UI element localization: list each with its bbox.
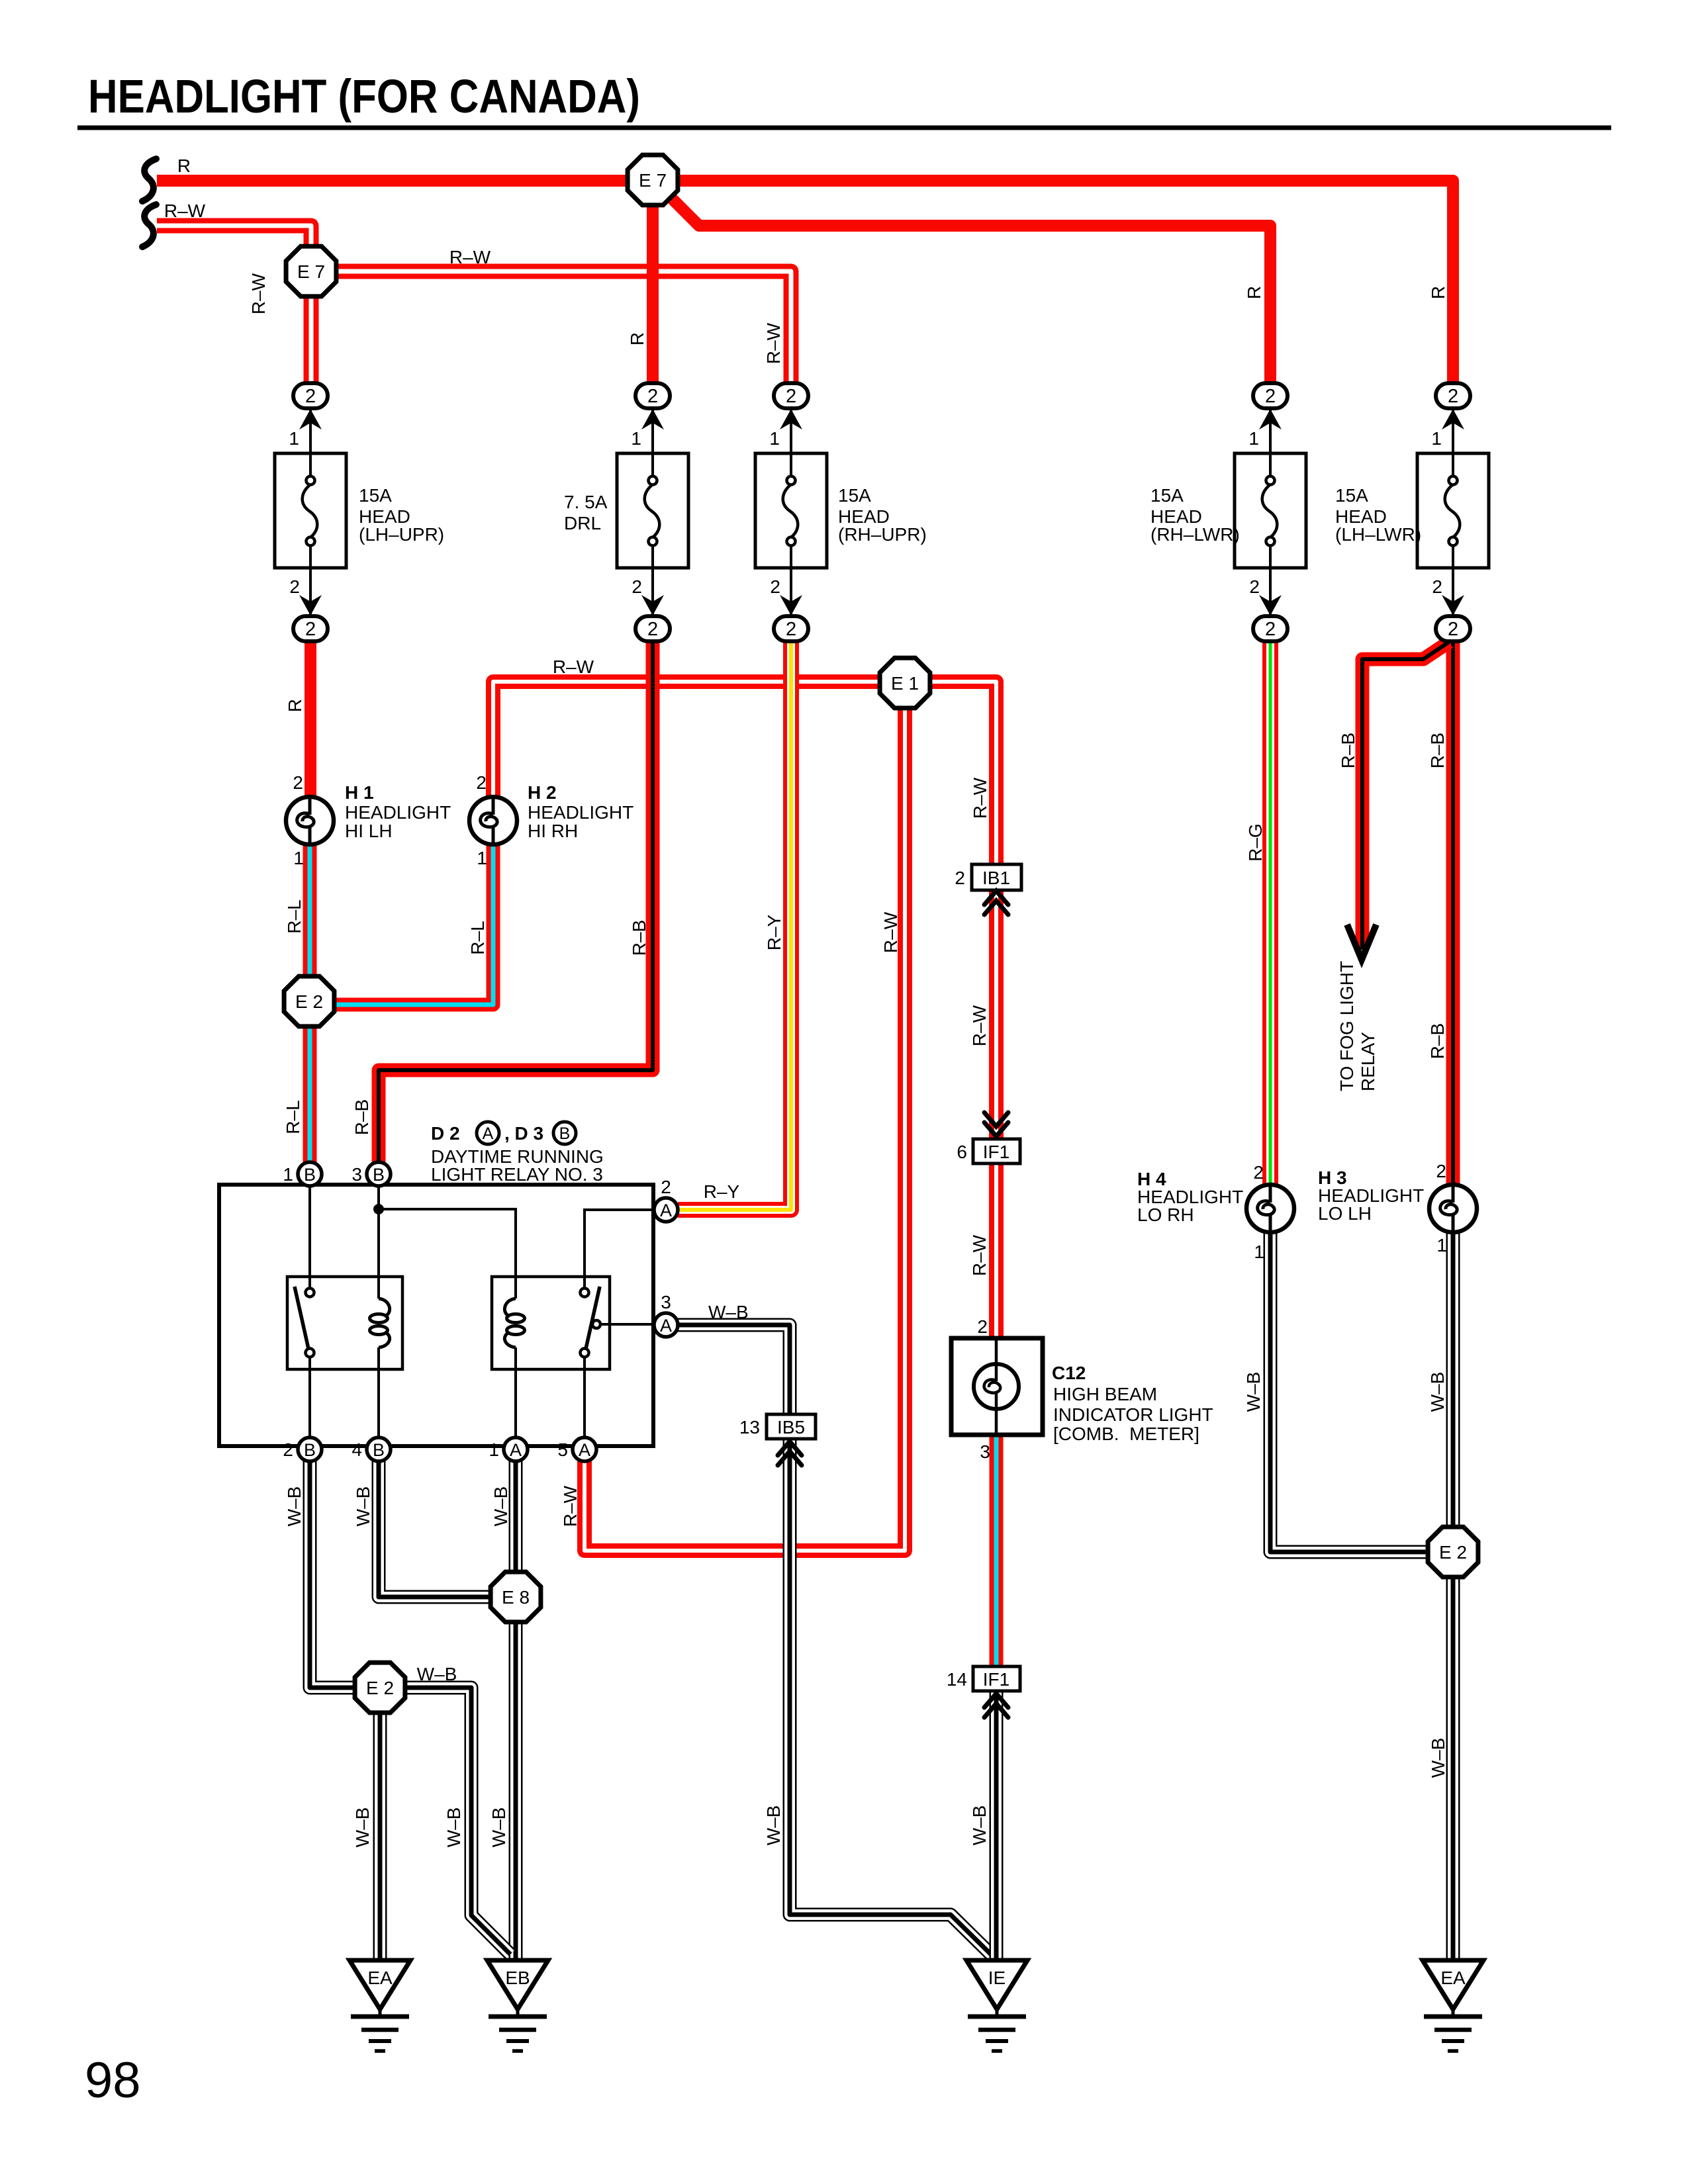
svg-text:A: A bbox=[483, 1124, 494, 1143]
svg-text:HI RH: HI RH bbox=[528, 821, 578, 841]
svg-text:R–G: R–G bbox=[1245, 823, 1266, 862]
fuse column LH-UPR: pin line 1 bbox=[309, 408, 312, 453]
svg-text:2: 2 bbox=[786, 619, 796, 640]
svg-text:2: 2 bbox=[283, 1439, 293, 1460]
svg-text:2: 2 bbox=[661, 1177, 671, 1197]
svg-text:B: B bbox=[559, 1124, 571, 1143]
wire W-B from E2 down to ground EA bbox=[373, 1688, 387, 1960]
svg-text:1: 1 bbox=[1248, 428, 1259, 449]
svg-text:HEADLIGHT: HEADLIGHT bbox=[528, 802, 633, 823]
wire label W-B (E2 to EA, rotated) bbox=[352, 1807, 373, 1848]
svg-text:R–W: R–W bbox=[969, 1234, 990, 1276]
svg-text:(RH–LWR): (RH–LWR) bbox=[1150, 524, 1240, 545]
svg-text:EA: EA bbox=[1440, 1968, 1466, 1988]
svg-text:R–B: R–B bbox=[1427, 733, 1448, 768]
relay pin 1A bbox=[504, 1437, 528, 1461]
wire label W-B (H4 wire, rotated) bbox=[1243, 1372, 1264, 1412]
wire label R-L (H1 to E2, rotated) bbox=[284, 899, 305, 933]
wire W-B from IF1 pin 14 to ground IE bbox=[990, 1690, 1004, 1960]
connector oval 2 below fuse DRL bbox=[635, 616, 670, 641]
connector oval 2 above fuse LH-LWR bbox=[1436, 383, 1470, 408]
wire W-B from relay pin 2B to E2 ground junction bbox=[310, 1461, 380, 1688]
svg-text:15A: 15A bbox=[1150, 485, 1184, 506]
wire label R-W (pin 5A, rotated) bbox=[560, 1485, 581, 1527]
svg-text:1: 1 bbox=[631, 428, 641, 449]
connector oval 2 below fuse LH-LWR bbox=[1436, 616, 1470, 641]
svg-text:A: A bbox=[660, 1201, 672, 1220]
connector arrow down (DRL pin 2) bbox=[641, 595, 664, 615]
connector IB1 pin 2 bbox=[955, 864, 1021, 890]
brace wire-continuation squiggle at R-W feed bbox=[142, 205, 156, 247]
svg-text:2: 2 bbox=[1253, 1162, 1264, 1183]
svg-text:2: 2 bbox=[647, 386, 658, 407]
svg-text:INDICATOR LIGHT: INDICATOR LIGHT bbox=[1053, 1404, 1213, 1425]
fuse column LH-LWR: pin line 1 bbox=[1452, 408, 1454, 453]
svg-text:1: 1 bbox=[283, 1164, 293, 1185]
svg-text:R: R bbox=[285, 699, 305, 712]
svg-text:R–W: R–W bbox=[560, 1485, 581, 1527]
label TO FOG LIGHT RELAY (rotated) bbox=[1336, 961, 1378, 1091]
connector arrow down (RH-LWR pin 2) bbox=[1259, 595, 1282, 615]
svg-text:14: 14 bbox=[947, 1669, 967, 1690]
svg-text:TO FOG LIGHT: TO FOG LIGHT bbox=[1336, 961, 1357, 1091]
svg-text:B: B bbox=[304, 1165, 316, 1185]
svg-text:H 1: H 1 bbox=[345, 782, 374, 803]
svg-text:2: 2 bbox=[770, 576, 780, 597]
svg-text:15A: 15A bbox=[838, 485, 871, 506]
connector oval 2 above fuse RH-UPR bbox=[774, 383, 808, 408]
wire W-B from relay pin 3A through IB5 to ground IE bbox=[678, 1325, 992, 1956]
connector arrow down (RH-UPR pin 2) bbox=[780, 595, 802, 615]
connector E2 (lower-left ground junction) bbox=[355, 1662, 405, 1713]
C12 high beam indicator light box bbox=[951, 1338, 1043, 1435]
wire W-B from relay pin 1A through E8 to ground EB bbox=[509, 1461, 523, 1960]
wire label R-L (H2 wire, rotated) bbox=[467, 921, 488, 954]
svg-text:3: 3 bbox=[661, 1292, 671, 1312]
svg-text:W–B: W–B bbox=[444, 1807, 464, 1848]
wire label W-B (E2 to EB, rotated) bbox=[444, 1807, 464, 1848]
svg-text:6: 6 bbox=[957, 1142, 967, 1162]
svg-text:IB1: IB1 bbox=[982, 868, 1010, 888]
svg-text:R–Y: R–Y bbox=[704, 1181, 740, 1202]
svg-text:1: 1 bbox=[477, 848, 487, 868]
svg-text:1: 1 bbox=[1431, 428, 1442, 449]
wire label W-B (pin 2B, rotated) bbox=[284, 1486, 305, 1527]
wire R from fuse LH-UPR to H1 headlight bbox=[305, 639, 316, 797]
wire label W-B (IB5 to IE, rotated) bbox=[763, 1805, 784, 1846]
svg-text:13: 13 bbox=[739, 1417, 760, 1437]
svg-text:1: 1 bbox=[489, 1439, 499, 1460]
fuse column DRL: pin line 1 bbox=[651, 408, 654, 453]
fuse 15A HEAD (RH-LWR) bbox=[1235, 453, 1306, 568]
svg-text:W–B: W–B bbox=[1428, 1738, 1448, 1778]
connector E7 (left junction) bbox=[286, 246, 336, 296]
svg-text:R–B: R–B bbox=[1427, 1023, 1448, 1059]
relay internal wire from pin 3B through junction to coil bbox=[377, 1186, 380, 1298]
fuse column DRL: pin line 2 bbox=[651, 568, 654, 616]
wire R-W feed from brace into connector E7 bbox=[157, 226, 311, 271]
svg-text:B: B bbox=[304, 1440, 316, 1460]
wire label R-B (to H3 lower, rotated) bbox=[1427, 1023, 1448, 1059]
svg-text:R: R bbox=[1244, 286, 1264, 299]
wire label R-W (IF1 to C12 upper, rotated) bbox=[969, 1005, 990, 1046]
svg-text:EB: EB bbox=[505, 1968, 530, 1988]
svg-text:R–W: R–W bbox=[553, 657, 594, 677]
wire R-G from RH-LWR fuse to H4 headlight bbox=[1262, 639, 1278, 1185]
svg-text:RELAY: RELAY bbox=[1358, 1032, 1378, 1091]
connector arrow up (LH-LWR pin 1) bbox=[1442, 409, 1464, 430]
svg-text:2: 2 bbox=[293, 772, 303, 793]
relay D2/D3 daytime running light relay no.3 box bbox=[219, 1185, 653, 1446]
brace wire-continuation squiggle at R feed bbox=[142, 159, 156, 201]
chevron pair below IF1 pin 14 bbox=[984, 1694, 1008, 1707]
fuse column RH-UPR: pin line 2 bbox=[790, 568, 792, 616]
svg-text:HIGH BEAM: HIGH BEAM bbox=[1053, 1384, 1157, 1404]
relay internal wire from right switch tap to pin 3A bbox=[600, 1323, 654, 1326]
svg-text:E 8: E 8 bbox=[502, 1587, 530, 1608]
connector oval 2 above fuse RH-LWR bbox=[1253, 383, 1288, 408]
svg-text:A: A bbox=[660, 1316, 672, 1336]
svg-text:W–B: W–B bbox=[708, 1302, 749, 1322]
fuse 7.5A DRL bbox=[617, 453, 688, 568]
connector IB5 pin 13 bbox=[739, 1414, 816, 1439]
connector E7 (top junction) bbox=[628, 155, 678, 205]
ground EA (left) bbox=[350, 1960, 410, 2051]
svg-text:7. 5A: 7. 5A bbox=[564, 492, 608, 512]
svg-text:R–W: R–W bbox=[969, 1005, 990, 1046]
wire label W-B (pin 4B, rotated) bbox=[353, 1486, 373, 1527]
relay pin 4B bbox=[367, 1437, 391, 1461]
svg-text:A: A bbox=[510, 1440, 522, 1460]
svg-text:DRL: DRL bbox=[564, 513, 601, 533]
relay right switch blade bbox=[586, 1287, 600, 1349]
svg-text:B: B bbox=[373, 1165, 385, 1185]
relay internal wire from pin 1B to switch bbox=[308, 1186, 311, 1289]
connector arrow up (RH-UPR pin 1) bbox=[780, 409, 802, 430]
wire R-W from E1 down and left to relay pin 5A bbox=[585, 683, 905, 1551]
wire R branch from E7 to RH-LWR fuse bbox=[657, 183, 1270, 384]
svg-text:, D 3: , D 3 bbox=[504, 1123, 543, 1144]
fuse 15A HEAD (LH-UPR) bbox=[275, 453, 346, 568]
wire R main feed (top horizontal, to LH-LWR fuse) bbox=[157, 181, 1453, 384]
wire label W-B (IF1 14 to IE, rotated) bbox=[969, 1805, 990, 1846]
svg-text:(RH–UPR): (RH–UPR) bbox=[838, 524, 927, 545]
svg-text:R: R bbox=[177, 156, 191, 176]
svg-text:IB5: IB5 bbox=[777, 1417, 805, 1437]
svg-text:R–B: R–B bbox=[352, 1099, 372, 1135]
svg-text:A: A bbox=[579, 1440, 590, 1460]
svg-text:W–B: W–B bbox=[353, 1486, 373, 1527]
chevron pair above IF1 pin 6 bbox=[984, 1113, 1008, 1126]
svg-text:1: 1 bbox=[769, 428, 780, 449]
svg-text:W–B: W–B bbox=[491, 1486, 511, 1527]
svg-text:2: 2 bbox=[1249, 576, 1260, 597]
fuse column LH-UPR: pin line 2 bbox=[309, 568, 312, 616]
fuse column RH-LWR: pin line 1 bbox=[1269, 408, 1272, 453]
svg-text:[COMB. METER]: [COMB. METER] bbox=[1053, 1424, 1199, 1444]
wire label W-B (E8 to EB, rotated) bbox=[489, 1807, 509, 1848]
wire label R-B (fog branch, rotated) bbox=[1338, 733, 1358, 768]
connector E2 (lower-right ground junction) bbox=[1428, 1527, 1478, 1577]
connector arrow up (DRL pin 1) bbox=[641, 409, 664, 430]
wire R-W from E7 right to HEAD RH-UPR fuse bbox=[311, 271, 791, 384]
svg-text:15A: 15A bbox=[359, 485, 392, 506]
relay internal wire below right coil to pin 1A bbox=[514, 1347, 517, 1437]
relay internal junction node bbox=[373, 1204, 384, 1214]
wire label R (down to LH-LWR fuse, rotated) bbox=[1428, 286, 1448, 299]
svg-text:LO RH: LO RH bbox=[1137, 1205, 1194, 1225]
svg-text:2: 2 bbox=[1265, 386, 1276, 407]
svg-text:2: 2 bbox=[632, 576, 642, 597]
wire label R-B (to relay 3B, rotated) bbox=[352, 1099, 372, 1135]
connector oval 2 below fuse RH-LWR bbox=[1253, 616, 1288, 641]
ground IE bbox=[966, 1960, 1027, 2051]
svg-text:98: 98 bbox=[85, 2052, 141, 2109]
fuse column LH-LWR: pin line 2 bbox=[1452, 568, 1454, 616]
svg-text:E 7: E 7 bbox=[297, 261, 325, 282]
svg-text:W–B: W–B bbox=[969, 1805, 990, 1846]
connector IF1 pin 6 bbox=[957, 1139, 1020, 1163]
wire label R-W (down to RH-UPR fuse, rotated) bbox=[763, 322, 784, 364]
wire W-B from relay pin 4B to E8 bbox=[379, 1461, 516, 1597]
wire R-Y from RH-UPR fuse to relay pin 2A bbox=[678, 639, 791, 1210]
headlight bulb H4 LO RH bbox=[1246, 1185, 1294, 1232]
fuse 15A HEAD (RH-UPR) bbox=[755, 453, 827, 568]
wire label R-L (E2 to relay 1B, rotated) bbox=[283, 1100, 303, 1134]
svg-text:R–W: R–W bbox=[970, 777, 990, 819]
fuse 15A HEAD (LH-LWR) bbox=[1417, 453, 1489, 568]
wire label R-W (E1 to IB1, rotated) bbox=[970, 777, 990, 819]
connector arrow down (LH-UPR pin 2) bbox=[299, 595, 322, 615]
wire R-W from IB1 to IF1 bbox=[989, 890, 1004, 1139]
svg-text:R–W: R–W bbox=[248, 273, 269, 314]
relay pin 1B bbox=[298, 1162, 322, 1186]
svg-text:R: R bbox=[627, 332, 647, 345]
svg-text:C12: C12 bbox=[1052, 1363, 1086, 1383]
wire W-B from E2 right side to ground EB bbox=[380, 1688, 510, 1954]
connector oval 2 below fuse LH-UPR bbox=[293, 616, 328, 641]
wire R-W from IF1 to C12 high beam indicator bbox=[989, 1163, 1004, 1338]
svg-text:3: 3 bbox=[352, 1164, 362, 1185]
arrow to fog light relay bbox=[1347, 925, 1376, 960]
svg-text:15A: 15A bbox=[1335, 485, 1368, 506]
svg-text:R–L: R–L bbox=[284, 899, 305, 933]
fuse column RH-LWR: pin line 2 bbox=[1269, 568, 1272, 616]
connector oval 2 above fuse LH-UPR bbox=[293, 383, 328, 408]
svg-text:(LH–UPR): (LH–UPR) bbox=[359, 524, 444, 545]
wire label R-Y (RH-UPR wire, rotated) bbox=[764, 914, 784, 950]
svg-text:W–B: W–B bbox=[1243, 1372, 1264, 1412]
svg-text:2: 2 bbox=[305, 386, 316, 407]
svg-text:2: 2 bbox=[1265, 619, 1276, 640]
relay right switch tap contact bbox=[592, 1320, 600, 1328]
svg-text:2: 2 bbox=[1432, 576, 1442, 597]
relay pin 2A bbox=[654, 1198, 678, 1222]
svg-text:R: R bbox=[1428, 286, 1448, 299]
ground EA (right) bbox=[1423, 1960, 1483, 2051]
svg-text:R–L: R–L bbox=[467, 921, 488, 954]
wire label R (fuse to H1, rotated) bbox=[285, 699, 305, 712]
relay internal wire below left switch to pin 2B bbox=[308, 1357, 311, 1437]
svg-text:H 2: H 2 bbox=[528, 782, 557, 803]
svg-text:W–B: W–B bbox=[489, 1807, 509, 1848]
svg-text:2: 2 bbox=[476, 772, 487, 793]
relay pin 3A bbox=[654, 1313, 678, 1337]
wire R-B from DRL fuse to relay pin 3B bbox=[379, 639, 653, 1162]
ground EB bbox=[487, 1960, 548, 2051]
svg-text:1: 1 bbox=[1436, 1235, 1447, 1255]
connector IF1 pin 14 bbox=[947, 1666, 1020, 1691]
svg-text:R–Y: R–Y bbox=[764, 914, 784, 950]
wire label W-B (pin 1A, rotated) bbox=[491, 1486, 511, 1527]
svg-text:HEADLIGHT: HEADLIGHT bbox=[345, 802, 451, 823]
svg-text:W–B: W–B bbox=[284, 1486, 305, 1527]
relay left sub-box bbox=[287, 1277, 402, 1369]
connector arrow up (LH-UPR pin 1) bbox=[299, 409, 322, 430]
chevron pair below IB5 bbox=[778, 1441, 802, 1455]
relay internal wire below right switch to pin 5A bbox=[583, 1357, 586, 1437]
svg-text:R–B: R–B bbox=[1338, 733, 1358, 768]
relay pin 5A bbox=[573, 1437, 596, 1461]
chevron pair below IB1 bbox=[984, 891, 1008, 905]
fuse column RH-UPR: pin line 1 bbox=[790, 408, 792, 453]
svg-text:3: 3 bbox=[980, 1441, 990, 1462]
wire label R-B (DRL wire, rotated) bbox=[629, 920, 649, 956]
wire R-L from C12 pin 3 to IF1 pin 14 bbox=[990, 1435, 1004, 1666]
svg-text:2: 2 bbox=[1436, 1161, 1446, 1181]
svg-text:2: 2 bbox=[647, 619, 658, 640]
svg-text:E 2: E 2 bbox=[1439, 1542, 1467, 1563]
connector E2 (upper junction) bbox=[284, 976, 334, 1026]
relay left switch bottom contact bbox=[306, 1349, 314, 1357]
svg-text:E 1: E 1 bbox=[891, 673, 919, 694]
wire R from E7 top junction down to DRL fuse bbox=[647, 180, 659, 384]
wire R-B branch to fog light relay bbox=[1362, 642, 1449, 950]
relay left switch top contact bbox=[306, 1289, 314, 1297]
svg-text:HEADLIGHT (FOR CANADA): HEADLIGHT (FOR CANADA) bbox=[88, 71, 640, 123]
wire W-B from H4 to E2 bbox=[1270, 1232, 1453, 1552]
svg-text:W–B: W–B bbox=[352, 1807, 373, 1848]
svg-text:(LH–LWR): (LH–LWR) bbox=[1335, 524, 1421, 545]
headlight bulb H2 HI RH bbox=[469, 797, 517, 844]
svg-text:LO LH: LO LH bbox=[1318, 1203, 1372, 1224]
relay pin 2B bbox=[298, 1437, 322, 1461]
svg-text:IF1: IF1 bbox=[983, 1669, 1009, 1690]
svg-text:R–L: R–L bbox=[283, 1100, 303, 1134]
svg-text:2: 2 bbox=[305, 619, 316, 640]
connector oval 2 below fuse RH-UPR bbox=[774, 616, 808, 641]
svg-text:W–B: W–B bbox=[763, 1805, 784, 1846]
relay right sub-box bbox=[492, 1277, 610, 1369]
svg-text:2: 2 bbox=[955, 868, 965, 888]
connector E8 (ground junction) bbox=[491, 1572, 541, 1622]
wire label R-B (to H3 upper, rotated) bbox=[1427, 733, 1448, 768]
headlight bulb H3 LO LH bbox=[1429, 1185, 1477, 1232]
svg-text:D 2: D 2 bbox=[431, 1123, 460, 1144]
connector arrow down (LH-LWR pin 2) bbox=[1442, 595, 1464, 615]
svg-text:IE: IE bbox=[988, 1968, 1006, 1988]
svg-text:1: 1 bbox=[289, 428, 299, 449]
svg-text:2: 2 bbox=[786, 386, 796, 407]
svg-text:E 2: E 2 bbox=[295, 991, 323, 1012]
svg-text:R–W: R–W bbox=[880, 911, 901, 953]
relay internal wire from junction to right coil bbox=[379, 1209, 516, 1298]
relay pin 3B bbox=[367, 1162, 391, 1186]
wire R-L from H1 through E2 to relay pin 1B bbox=[303, 844, 317, 1162]
svg-text:R–B: R–B bbox=[629, 920, 649, 956]
wire R-B from LH-LWR fuse to H3 headlight bbox=[1446, 639, 1460, 1185]
svg-text:R–W: R–W bbox=[164, 201, 206, 221]
wire label R-W (E7 to LH-UPR fuse, rotated) bbox=[248, 273, 269, 314]
svg-text:2: 2 bbox=[289, 576, 300, 597]
wire W-B from H3 through E2 to ground EA bbox=[1446, 1232, 1460, 1960]
connector E1 junction bbox=[880, 658, 930, 708]
svg-text:E 7: E 7 bbox=[639, 170, 667, 191]
svg-text:R–W: R–W bbox=[763, 322, 784, 364]
svg-text:5: 5 bbox=[557, 1439, 568, 1460]
svg-text:IF1: IF1 bbox=[983, 1142, 1009, 1162]
wire R-W from E7 bottom to HEAD LH-UPR fuse bbox=[304, 271, 319, 384]
wire label R-W (E1 down, rotated) bbox=[880, 911, 901, 953]
wire R-W from H2 through E1 to IB1 bbox=[493, 682, 996, 864]
svg-text:W–B: W–B bbox=[1427, 1372, 1448, 1412]
headlight bulb H1 HI LH bbox=[286, 797, 334, 844]
svg-text:W–B: W–B bbox=[417, 1664, 457, 1684]
relay left switch blade bbox=[295, 1287, 308, 1349]
wire label W-B (E2 to EA right, rotated) bbox=[1428, 1738, 1448, 1778]
relay right switch top contact bbox=[581, 1289, 589, 1297]
svg-text:LIGHT RELAY NO. 3: LIGHT RELAY NO. 3 bbox=[431, 1164, 603, 1185]
svg-text:2: 2 bbox=[1448, 386, 1458, 407]
relay right switch bottom contact bbox=[581, 1349, 589, 1357]
wire R-L from H2 to E2 bbox=[309, 844, 493, 1005]
wire label W-B (H3 wire, rotated) bbox=[1427, 1372, 1448, 1412]
relay left coil bbox=[370, 1298, 390, 1347]
connector arrow up (RH-LWR pin 1) bbox=[1259, 409, 1282, 430]
svg-text:EA: EA bbox=[367, 1968, 393, 1988]
svg-text:B: B bbox=[373, 1440, 385, 1460]
svg-text:2: 2 bbox=[1448, 619, 1458, 640]
svg-text:1: 1 bbox=[1254, 1242, 1264, 1262]
wire label R (E7 to DRL fuse, rotated) bbox=[627, 332, 647, 345]
relay internal wire below left coil to pin 4B bbox=[377, 1347, 380, 1437]
svg-text:4: 4 bbox=[352, 1439, 362, 1460]
svg-text:HI LH: HI LH bbox=[345, 821, 393, 841]
svg-text:1: 1 bbox=[293, 848, 304, 868]
svg-text:R–W: R–W bbox=[449, 247, 491, 267]
wire label R (down to RH-LWR fuse, rotated) bbox=[1244, 286, 1264, 299]
relay internal wire from pin 2A to right switch bbox=[585, 1210, 654, 1289]
wire label R-G (to H4, rotated) bbox=[1245, 823, 1266, 862]
relay right coil bbox=[504, 1298, 524, 1347]
svg-text:E 2: E 2 bbox=[366, 1678, 394, 1698]
wire label R-W (IF1 to C12 lower, rotated) bbox=[969, 1234, 990, 1276]
connector oval 2 above fuse DRL bbox=[635, 383, 670, 408]
title rule bbox=[77, 126, 1611, 130]
svg-text:2: 2 bbox=[977, 1316, 988, 1337]
